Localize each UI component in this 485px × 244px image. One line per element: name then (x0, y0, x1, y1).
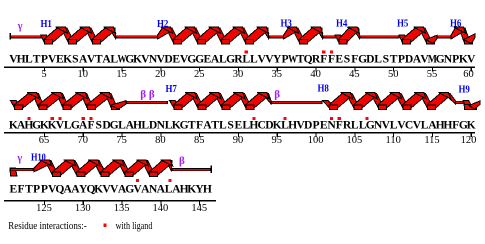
ruler row 3 (4, 200, 216, 201)
wire coil 7 (126, 101, 168, 104)
ligand dot K66 (51, 117, 54, 120)
svg-text:β: β (179, 155, 185, 167)
svg-text:30: 30 (233, 69, 244, 80)
ligand dot V67 (58, 117, 61, 120)
wire coil 2 (116, 35, 159, 38)
svg-text:γ: γ (16, 153, 22, 164)
svg-text:95: 95 (272, 135, 283, 146)
ligand dot L31 (245, 51, 248, 54)
svg-text:β: β (140, 88, 146, 100)
svg-text:55: 55 (427, 69, 438, 80)
helix H1 (41, 35, 50, 42)
end tick C-terminus (210, 166, 212, 174)
svg-text:H5: H5 (397, 19, 408, 30)
svg-text:135: 135 (114, 203, 130, 214)
svg-text:KAHGKKVLGAFSDGLAHLDNLKGTFATLSE: KAHGKKVLGAFSDGLAHLDNLKGTFATLSELHCDKLHVDP… (9, 118, 476, 131)
svg-text:70: 70 (78, 135, 89, 146)
svg-text:145: 145 (191, 203, 207, 214)
svg-text:H4: H4 (336, 19, 348, 30)
svg-text:GNPKV: GNPKV (436, 52, 476, 65)
ligand dot H92 (252, 117, 255, 120)
svg-text:115: 115 (424, 135, 439, 146)
svg-text:H9: H9 (459, 84, 470, 95)
ligand dot L106 (365, 117, 368, 120)
svg-text:Residue interactions:-: Residue interactions:- (8, 221, 87, 232)
wire coil 1 (10, 35, 42, 38)
helix H2 (166, 28, 179, 42)
wire coil 9 (455, 101, 464, 104)
legend dot (103, 224, 106, 227)
ligand dot F103 (338, 117, 341, 120)
svg-text:H1: H1 (41, 19, 52, 30)
ligand dot H63 (27, 117, 30, 120)
ligand dot L96 (283, 117, 286, 120)
helix H5 (399, 35, 408, 42)
helix H3 (292, 28, 305, 42)
svg-text:TQRFFESFGDLSTPDAV: TQRFFESFGDLSTPDAV (297, 52, 430, 65)
wire coil 6 (437, 35, 452, 38)
svg-text:130: 130 (75, 203, 91, 214)
ruler row 2 (4, 132, 475, 133)
ligand dot N102 (330, 117, 333, 120)
svg-text:EFTPPVQAAYQKVVAGVANALAHKYH: EFTPPVQAAYQKVVAGVANALAHKYH (10, 182, 212, 195)
svg-text:40: 40 (310, 69, 321, 80)
svg-text:5: 5 (41, 69, 46, 80)
svg-text:H8: H8 (318, 84, 329, 95)
svg-text:GKVNVDEVGGEALGRLLVVYP: GKVNVDEVGGEALGRLLVVYP (125, 52, 288, 65)
start tick N-terminus (10, 33, 12, 40)
ruler row 1 (4, 67, 475, 68)
svg-text:β: β (149, 88, 155, 100)
ligand dot F42 (330, 51, 333, 54)
svg-text:50: 50 (388, 69, 399, 80)
svg-text:25: 25 (194, 69, 205, 80)
helix H6 (459, 28, 470, 42)
wire coil 11 (172, 168, 212, 171)
ligand dot L141 (168, 179, 171, 182)
wire coil 3 (269, 35, 285, 38)
helix H6 continuation (11, 101, 21, 108)
svg-text:80: 80 (155, 135, 166, 146)
svg-text:125: 125 (36, 203, 52, 214)
svg-text:H6: H6 (450, 19, 461, 30)
svg-text:H3: H3 (281, 18, 292, 29)
ligand dot A70 (82, 117, 85, 120)
svg-text:120: 120 (461, 135, 477, 146)
ligand dot F41 (322, 51, 325, 54)
helix H4 (335, 35, 345, 42)
helix H9 end wedge (10, 168, 17, 176)
svg-text:65: 65 (39, 135, 50, 146)
svg-text:75: 75 (116, 135, 127, 146)
wire coil 8 (271, 101, 323, 104)
svg-text:100: 100 (308, 135, 324, 146)
wire coil 4 (323, 35, 338, 38)
svg-text:with ligand: with ligand (116, 221, 153, 232)
svg-text:140: 140 (153, 203, 169, 214)
svg-text:VHLTPVEKSAVTAL: VHLTPVEKSAVTAL (9, 52, 118, 65)
svg-text:10: 10 (78, 69, 89, 80)
helix H7 (170, 101, 180, 108)
helix H10 (45, 161, 58, 175)
svg-text:60: 60 (463, 69, 474, 80)
ligand dot V137 (136, 179, 139, 182)
svg-text:β: β (274, 89, 280, 101)
svg-text:105: 105 (347, 135, 363, 146)
svg-text:20: 20 (155, 69, 166, 80)
wire coil 10 (10, 168, 34, 171)
wire coil 5 (360, 35, 400, 38)
svg-text:45: 45 (349, 69, 360, 80)
svg-text:35: 35 (272, 69, 283, 80)
svg-text:H7: H7 (166, 84, 177, 95)
svg-text:85: 85 (194, 135, 205, 146)
svg-text:H2: H2 (157, 19, 168, 30)
svg-text:γ: γ (17, 21, 23, 32)
ligand dot F71 (89, 117, 92, 120)
svg-text:H10: H10 (31, 152, 46, 163)
svg-text:90: 90 (233, 135, 244, 146)
svg-text:110: 110 (386, 135, 401, 146)
svg-text:15: 15 (116, 69, 127, 80)
helix H8 (323, 101, 336, 108)
helix H9 start (463, 101, 472, 108)
